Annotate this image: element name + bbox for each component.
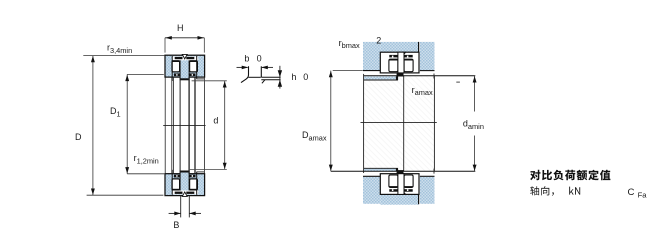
heading: comparative load ratings <box>530 170 610 181</box>
dimension Damax <box>333 70 363 72</box>
svg-text:D: D <box>75 132 82 142</box>
dimension D1 <box>127 73 164 75</box>
abutment sleeve (top) <box>364 77 396 80</box>
dimension B <box>180 196 182 218</box>
bearing section lower half (right figure, mirrored) <box>380 170 419 194</box>
svg-text:2: 2 <box>376 35 381 45</box>
small dash mark <box>456 81 460 83</box>
svg-text:b: b <box>244 54 249 64</box>
bearing section lower half (left figure, mirrored) <box>165 170 205 197</box>
svg-text:d: d <box>213 116 218 126</box>
housing block (top) <box>363 42 380 70</box>
abutment sleeve (bottom) <box>364 169 396 171</box>
svg-text:H: H <box>177 23 184 33</box>
dimension H <box>164 38 166 53</box>
axis centerline (right figure) <box>361 121 437 123</box>
housing block (bottom) <box>363 177 380 204</box>
bearing section upper half (left figure) <box>165 54 205 81</box>
bearing section upper half (right figure) <box>380 52 419 76</box>
cover / spacer piece (top right, item 2) <box>420 42 435 70</box>
extension ticks at shaft shoulder <box>433 74 435 79</box>
shaft <box>364 76 434 172</box>
svg-text:h: h <box>291 72 296 82</box>
axis centerline (left figure) <box>163 124 205 126</box>
svg-text:0: 0 <box>303 72 308 82</box>
cover / spacer piece (bottom right) <box>420 177 435 204</box>
shaft seat line (top) + damin upper extension <box>364 75 476 77</box>
svg-text:0: 0 <box>257 54 262 64</box>
dimension d <box>192 80 227 82</box>
line: axial, kN <box>530 186 580 196</box>
svg-text:B: B <box>173 220 179 230</box>
dimension damin <box>474 76 476 112</box>
shaft seat line (bottom) + Damax / damin lower extension <box>331 170 476 172</box>
dimension D <box>83 55 165 57</box>
bore / washer silhouette lines <box>164 77 166 173</box>
joint line <box>418 42 420 53</box>
